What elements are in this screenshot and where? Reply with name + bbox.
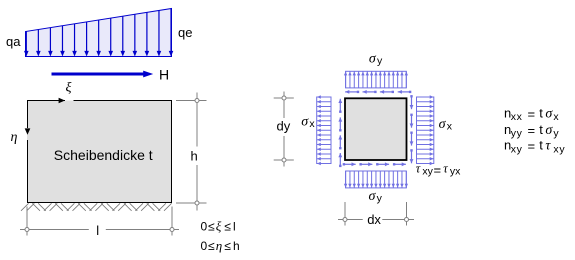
svg-text:H: H <box>159 67 169 83</box>
svg-text:qe: qe <box>178 25 192 40</box>
svg-text:dx: dx <box>367 212 381 227</box>
svg-text:=: = <box>434 162 442 177</box>
svg-text:≤: ≤ <box>224 239 231 253</box>
svg-text:t: t <box>539 138 543 153</box>
svg-text:y: y <box>377 55 383 67</box>
svg-text:xy: xy <box>511 143 523 155</box>
plate (Scheibe) <box>27 101 172 204</box>
label sigma-y bottom <box>369 189 383 205</box>
svg-text:0: 0 <box>201 219 208 233</box>
dimension h <box>176 93 207 211</box>
sigma-x load block right <box>417 95 434 165</box>
svg-text:qa: qa <box>6 34 21 49</box>
svg-text:=: = <box>528 106 536 121</box>
svg-text:=: = <box>528 123 536 138</box>
svg-text:Scheibendicke t: Scheibendicke t <box>54 147 153 163</box>
sigma-y load block top <box>344 71 408 88</box>
dimension dx <box>338 202 414 226</box>
dimension l <box>20 207 179 236</box>
svg-text:x: x <box>447 121 453 133</box>
svg-text:σ: σ <box>439 117 447 132</box>
svg-text:σ: σ <box>545 106 553 121</box>
svg-text:0: 0 <box>201 239 208 253</box>
svg-text:=: = <box>528 139 536 154</box>
equation n_yy = t sigma_y <box>504 122 559 140</box>
label sigma-y top <box>369 51 383 67</box>
svg-text:τ: τ <box>443 162 448 176</box>
svg-text:t: t <box>539 105 543 120</box>
svg-text:x: x <box>309 118 315 130</box>
svg-text:dy: dy <box>277 119 291 134</box>
svg-text:σ: σ <box>301 114 309 129</box>
xi axis arrow <box>59 98 65 104</box>
load arrows <box>24 9 173 57</box>
range of eta <box>201 238 240 253</box>
svg-text:x: x <box>553 111 559 123</box>
shear arrows bottom edge <box>343 162 406 166</box>
shear arrows right edge <box>410 95 414 163</box>
svg-text:ξ: ξ <box>216 218 222 233</box>
svg-text:τ: τ <box>416 162 421 176</box>
svg-text:≤: ≤ <box>208 239 215 253</box>
plate border <box>28 101 172 203</box>
svg-text:h: h <box>191 149 198 164</box>
resultant force H arrow <box>52 71 154 78</box>
svg-text:l: l <box>96 223 99 238</box>
svg-text:≤: ≤ <box>208 219 215 233</box>
svg-text:y: y <box>553 127 559 139</box>
ground hatching <box>21 203 172 211</box>
svg-text:yx: yx <box>450 165 461 177</box>
label tau-xy equals tau-yx <box>416 162 461 178</box>
label sigma-x left <box>301 114 315 130</box>
svg-text:t: t <box>539 122 543 137</box>
svg-text:σ: σ <box>369 51 377 66</box>
svg-text:xy: xy <box>553 143 565 155</box>
svg-text:η: η <box>11 130 18 145</box>
eta axis arrow <box>25 128 31 134</box>
svg-text:y: y <box>377 193 383 205</box>
svg-text:h: h <box>233 239 240 253</box>
svg-text:η: η <box>216 238 222 253</box>
sigma-y load block bottom <box>344 171 408 188</box>
equation n_xy = t tau_xy <box>504 138 565 156</box>
dimension dy <box>274 92 294 167</box>
svg-text:σ: σ <box>545 123 553 138</box>
label sigma-x right <box>439 117 453 133</box>
range of xi <box>201 218 236 233</box>
distributed load q (trapezoid) <box>26 9 172 57</box>
svg-text:xx: xx <box>511 111 523 123</box>
svg-text:≤: ≤ <box>224 219 231 233</box>
shear arrows top edge <box>345 90 411 94</box>
stress element square <box>345 98 407 160</box>
svg-text:ξ: ξ <box>66 81 72 96</box>
svg-text:yy: yy <box>511 127 523 139</box>
svg-text:σ: σ <box>369 189 377 204</box>
sigma-x load block left <box>317 95 331 165</box>
shear arrows left edge <box>338 99 342 167</box>
svg-text:xy: xy <box>422 165 433 177</box>
svg-text:l: l <box>233 219 236 233</box>
equation n_xx = t sigma_x <box>504 105 559 123</box>
